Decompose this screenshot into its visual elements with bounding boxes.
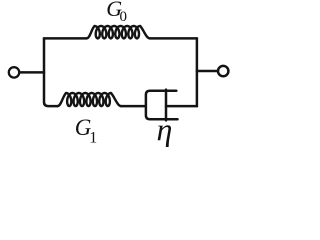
svg-text:0: 0: [120, 9, 128, 25]
wire: dashpot rod to right bus: [166, 105, 197, 108]
dashpot piston: [165, 90, 168, 121]
svg-text:1: 1: [89, 130, 97, 147]
wire: top rail left: [44, 37, 87, 40]
wire: right lead: [197, 70, 217, 73]
spring G1 coil: [58, 93, 122, 106]
wire: left lead: [20, 71, 44, 74]
wire: right bus bar: [196, 38, 199, 106]
left terminal circle: [9, 67, 19, 77]
wire: top rail right: [150, 37, 197, 40]
svg-text:η: η: [157, 111, 173, 147]
dashpot cup: [146, 91, 178, 120]
wire: bottom rail mid: [121, 105, 145, 108]
right terminal circle: [218, 66, 228, 76]
wire: left bus bar: [44, 38, 58, 106]
spring G0 coil: [87, 26, 150, 38]
